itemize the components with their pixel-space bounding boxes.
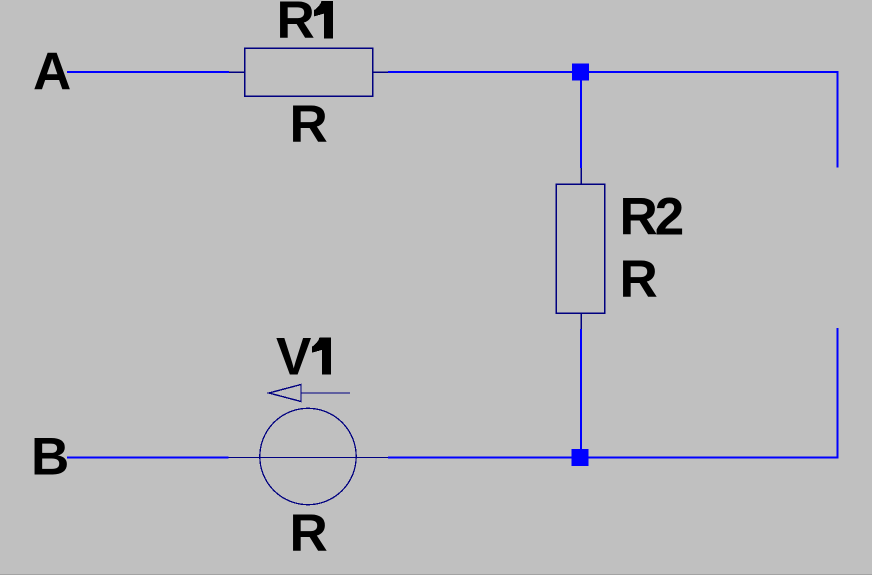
wire V1 to bottom junction and right <box>388 457 838 459</box>
svg-text:B: B <box>31 428 69 487</box>
svg-text:R: R <box>277 0 315 50</box>
wire R1 to top junction and right <box>388 71 838 73</box>
bottom window edge <box>0 574 872 575</box>
svg-text:R2: R2 <box>620 188 683 247</box>
wire A to R1 <box>67 71 229 73</box>
wire bottom-right corner up <box>837 328 839 459</box>
svg-text:R: R <box>290 504 328 563</box>
svg-text:V: V <box>276 328 311 387</box>
wire junction to R2 <box>580 72 582 168</box>
svg-text:R: R <box>620 250 658 309</box>
wire R2 to bottom junction <box>580 329 582 458</box>
resistor R2 <box>556 168 605 329</box>
wire top-right corner down <box>837 71 839 168</box>
wire B to V1 <box>67 457 229 459</box>
resistor R1 <box>229 48 388 96</box>
junction top <box>572 64 589 81</box>
junction bottom <box>572 449 589 466</box>
svg-text:A: A <box>33 43 71 102</box>
voltage source V1 <box>229 385 389 505</box>
svg-text:R: R <box>290 95 328 154</box>
